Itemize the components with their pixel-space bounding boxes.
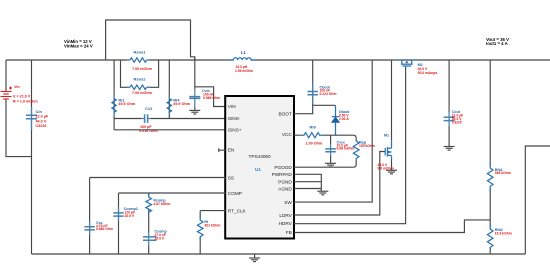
pin SW <box>284 200 292 205</box>
value Cvin <box>203 92 220 100</box>
voltage source Vin <box>1 87 13 101</box>
svg-text:U1: U1 <box>255 167 261 172</box>
pin ISNS+ <box>228 128 242 133</box>
transistor M2 <box>395 60 418 68</box>
label Ri1 <box>118 97 125 102</box>
svg-text:LDRV: LDRV <box>279 213 292 218</box>
resistor Rsns2 <box>126 85 150 89</box>
svg-text:BOOT: BOOT <box>279 111 292 116</box>
svg-text:VIN: VIN <box>228 104 236 109</box>
capacitor Cin <box>26 107 37 130</box>
svg-text:VinMax = 24 V: VinMax = 24 V <box>64 44 93 49</box>
wire: COMP row <box>119 192 226 194</box>
wire: Cboot branch <box>312 60 314 105</box>
wire: Cvin/VIN branch <box>195 57 226 107</box>
value L1 <box>235 65 253 73</box>
svg-text:C3216: C3216 <box>36 124 47 128</box>
wire: ISNS+ row <box>114 129 225 131</box>
wire: Rcomp/Ccomp branch <box>148 193 150 254</box>
capacitor Cvin <box>189 89 200 108</box>
svg-text:Rsns1: Rsns1 <box>134 50 147 55</box>
value Ri9 <box>306 142 323 146</box>
wire: Ri1 branch / ISNS+ column <box>113 60 115 130</box>
value M1 <box>378 163 394 170</box>
transistor M1 <box>385 141 391 160</box>
wire: Ccomp2 branch <box>118 193 120 254</box>
wire: PWRPAD/PGND/AGND to ground <box>294 174 321 191</box>
pin ISNS- <box>228 116 241 121</box>
svg-text:16.9 kOhm: 16.9 kOhm <box>495 232 512 236</box>
op IC U1 TPS43060 <box>225 96 294 239</box>
value M2 <box>418 67 438 75</box>
resistor Rpg <box>353 140 359 167</box>
wire: HDRV row to M2 gate <box>294 66 406 224</box>
wire: SS row <box>90 177 226 179</box>
ground (M1 source) <box>386 170 397 174</box>
label Cvin <box>202 89 210 93</box>
label Cin <box>36 109 43 114</box>
svg-text:SS: SS <box>228 175 234 180</box>
label Ri4 <box>173 97 180 102</box>
svg-text:0.680 Ohm: 0.680 Ohm <box>96 227 113 231</box>
capacitor Css <box>84 221 94 235</box>
svg-text:VCC: VCC <box>282 132 293 137</box>
pin VIN <box>228 104 236 109</box>
svg-text:49.9 Ohm: 49.9 Ohm <box>173 102 190 106</box>
value C12 <box>139 125 158 133</box>
value Css <box>96 224 113 231</box>
resistor Rcomp <box>146 194 152 214</box>
capacitor C12 <box>142 114 151 123</box>
wire: Rt branch <box>199 211 201 254</box>
capacitor Ccomp2 <box>113 207 123 221</box>
svg-text:7.00 mOhm: 7.00 mOhm <box>132 67 153 71</box>
value Rcomp <box>153 202 170 206</box>
label Cboot <box>320 86 331 90</box>
label Rcomp <box>153 198 166 202</box>
label Cvcc <box>337 140 346 144</box>
pin BOOT <box>279 111 292 116</box>
svg-text:49.9 Ohm: 49.9 Ohm <box>118 102 135 106</box>
wire: Cout branch <box>448 60 450 145</box>
value Cout <box>452 114 463 125</box>
value Ccomp <box>155 233 167 241</box>
label M2 <box>418 63 423 67</box>
wire: Rsns2 loop <box>121 60 159 87</box>
label Ccomp2 <box>124 207 138 211</box>
svg-text:PGOOD: PGOOD <box>274 165 292 170</box>
value Cin <box>36 115 49 128</box>
ground (Cvcc) <box>325 156 336 167</box>
resistor Ri4 <box>167 95 171 115</box>
label Rsns1 <box>134 50 147 55</box>
value Cboot <box>320 89 337 96</box>
pin HDRV <box>279 221 293 226</box>
wire: top rail (Vin to Vout) <box>6 59 550 61</box>
capacitor Cout <box>444 112 455 126</box>
svg-text:PGND: PGND <box>278 180 292 185</box>
pin LDRV <box>279 213 292 218</box>
wire: sense bypass box <box>106 20 195 60</box>
ground (Cout) <box>444 144 455 150</box>
resistor Rfb1 <box>487 163 493 192</box>
resistor Rfb2 <box>487 224 493 251</box>
label Ri9 <box>310 125 317 130</box>
svg-text:SW: SW <box>284 200 292 205</box>
value Cvcc <box>337 143 355 150</box>
svg-text:TPS43060: TPS43060 <box>249 154 272 159</box>
value Rsns1 <box>132 67 153 71</box>
label Rfb1 <box>495 168 503 172</box>
svg-text:RT_CLK: RT_CLK <box>228 208 247 213</box>
svg-text:ISNS-: ISNS- <box>228 116 241 121</box>
svg-text:16.0 V: 16.0 V <box>124 214 134 218</box>
svg-text:1.59 mOhm: 1.59 mOhm <box>235 69 253 73</box>
label U1 <box>255 167 261 172</box>
label C12 <box>145 106 153 111</box>
label M1 <box>384 133 389 137</box>
label TPS43060 <box>249 154 272 159</box>
wire: Css branch <box>89 178 91 255</box>
pin AGND <box>278 186 292 191</box>
wire: EN stub <box>219 148 226 152</box>
wire: PGOOD row <box>294 166 353 168</box>
value Ri1 <box>118 102 135 106</box>
svg-text:Rsns2: Rsns2 <box>134 76 147 81</box>
label Rt <box>204 220 209 224</box>
svg-text:0.224 Ohm: 0.224 Ohm <box>320 92 337 96</box>
svg-text:Iout1 = 4 A: Iout1 = 4 A <box>486 41 508 46</box>
wire: Rfb column <box>489 60 491 254</box>
svg-text:R = 1.0 mOhm: R = 1.0 mOhm <box>13 100 38 104</box>
svg-text:C3225: C3225 <box>452 121 462 125</box>
wire: M1 drain to rail <box>391 60 393 141</box>
svg-text:HDRV: HDRV <box>279 221 293 226</box>
svg-text:V = 21.0 V: V = 21.0 V <box>13 95 31 99</box>
pin PWRPAD <box>272 172 293 177</box>
svg-text:50.0 mAmps: 50.0 mAmps <box>418 71 438 75</box>
label Ccomp <box>155 229 168 233</box>
annotation VinMin/VinMax <box>64 39 93 49</box>
svg-text:C12: C12 <box>145 106 153 111</box>
svg-text:536 kOhm: 536 kOhm <box>495 171 511 175</box>
wire: M1 source to ground <box>391 160 393 171</box>
wire: FB row <box>294 220 490 233</box>
svg-text:0.068 Ohm: 0.068 Ohm <box>203 96 220 100</box>
resistor Rsns1 <box>126 58 150 62</box>
diode Dboot <box>332 105 339 135</box>
label Rfb2 <box>495 228 503 232</box>
resistor Rt <box>197 215 203 240</box>
wire: bottom ground rail <box>32 253 526 255</box>
capacitor Cvcc <box>325 135 336 156</box>
pin COMP <box>228 191 242 196</box>
value Rsns2 <box>132 91 153 95</box>
svg-text:7.00 mOhm: 7.00 mOhm <box>132 91 153 95</box>
value Ri4 <box>173 102 190 106</box>
pin RT_CLK <box>228 208 247 213</box>
pin FB <box>286 230 292 235</box>
wire: output return staircase right <box>525 146 550 254</box>
svg-text:PWRPAD: PWRPAD <box>272 172 293 177</box>
svg-text:AGND: AGND <box>278 186 292 191</box>
svg-text:0.68 mOhm: 0.68 mOhm <box>337 146 355 150</box>
pin PGND <box>278 180 292 185</box>
value Rfb1 <box>495 171 511 175</box>
svg-text:2.00 A: 2.00 A <box>339 117 349 121</box>
capacitor Ccomp <box>143 232 156 246</box>
svg-text:EN: EN <box>228 148 235 153</box>
svg-text:Ri9: Ri9 <box>310 125 317 130</box>
wire: BOOT route <box>294 105 336 113</box>
pin PGOOD <box>274 165 292 170</box>
svg-text:9.0 mOhm: 9.0 mOhm <box>378 167 394 171</box>
resistor Ri9 <box>300 133 324 138</box>
wire: SW row <box>294 60 372 202</box>
svg-text:ISNS+: ISNS+ <box>228 128 242 133</box>
ground (bottom rail) <box>249 254 260 262</box>
value Rpg <box>359 144 375 148</box>
wire: battery branch left <box>6 60 32 157</box>
svg-text:Vin: Vin <box>14 85 20 89</box>
svg-text:301 kOhm: 301 kOhm <box>204 223 220 227</box>
annotation Vout/Iout <box>486 37 509 46</box>
capacitor Cboot <box>307 83 318 104</box>
inductor L1 <box>228 58 258 60</box>
svg-text:22.0 µF: 22.0 µF <box>36 115 49 119</box>
label Dboot <box>339 110 350 114</box>
label L1 <box>241 50 247 55</box>
label Rsns2 <box>134 76 147 81</box>
label Vin <box>14 85 20 89</box>
wire: ISNS- row <box>114 118 225 120</box>
pin EN <box>228 148 235 153</box>
value Rfb2 <box>495 232 512 236</box>
pin VCC <box>282 132 293 137</box>
ground (Cvin) <box>189 108 200 115</box>
value Dboot <box>339 114 349 121</box>
svg-text:4.87 kOhm: 4.87 kOhm <box>153 202 170 206</box>
ground (PGND/AGND) <box>317 191 328 195</box>
value Rt <box>204 223 220 227</box>
wire: Ri4 branch <box>168 60 170 119</box>
svg-text:Cin: Cin <box>36 109 43 114</box>
svg-text:M1: M1 <box>384 133 389 137</box>
svg-text:16.0 V: 16.0 V <box>155 236 165 240</box>
svg-text:2.00 Ohm: 2.00 Ohm <box>306 142 323 146</box>
label Cout <box>452 110 461 114</box>
svg-text:COMP: COMP <box>228 191 242 196</box>
pin SS <box>228 175 234 180</box>
label Css <box>96 221 103 225</box>
wire: VCC row <box>294 135 356 140</box>
wire: RT_CLK row <box>200 210 225 212</box>
svg-text:L1: L1 <box>241 50 247 55</box>
wire: LDRV row to M1 gate <box>294 152 385 216</box>
svg-text:40.0 V: 40.0 V <box>36 119 47 123</box>
wire: Cin branch <box>31 60 33 254</box>
value Ccomp2 <box>124 210 135 218</box>
value Vin <box>13 95 38 104</box>
svg-text:FB: FB <box>286 230 292 235</box>
resistor Ri1 <box>112 95 116 115</box>
label Rpg <box>359 141 366 145</box>
